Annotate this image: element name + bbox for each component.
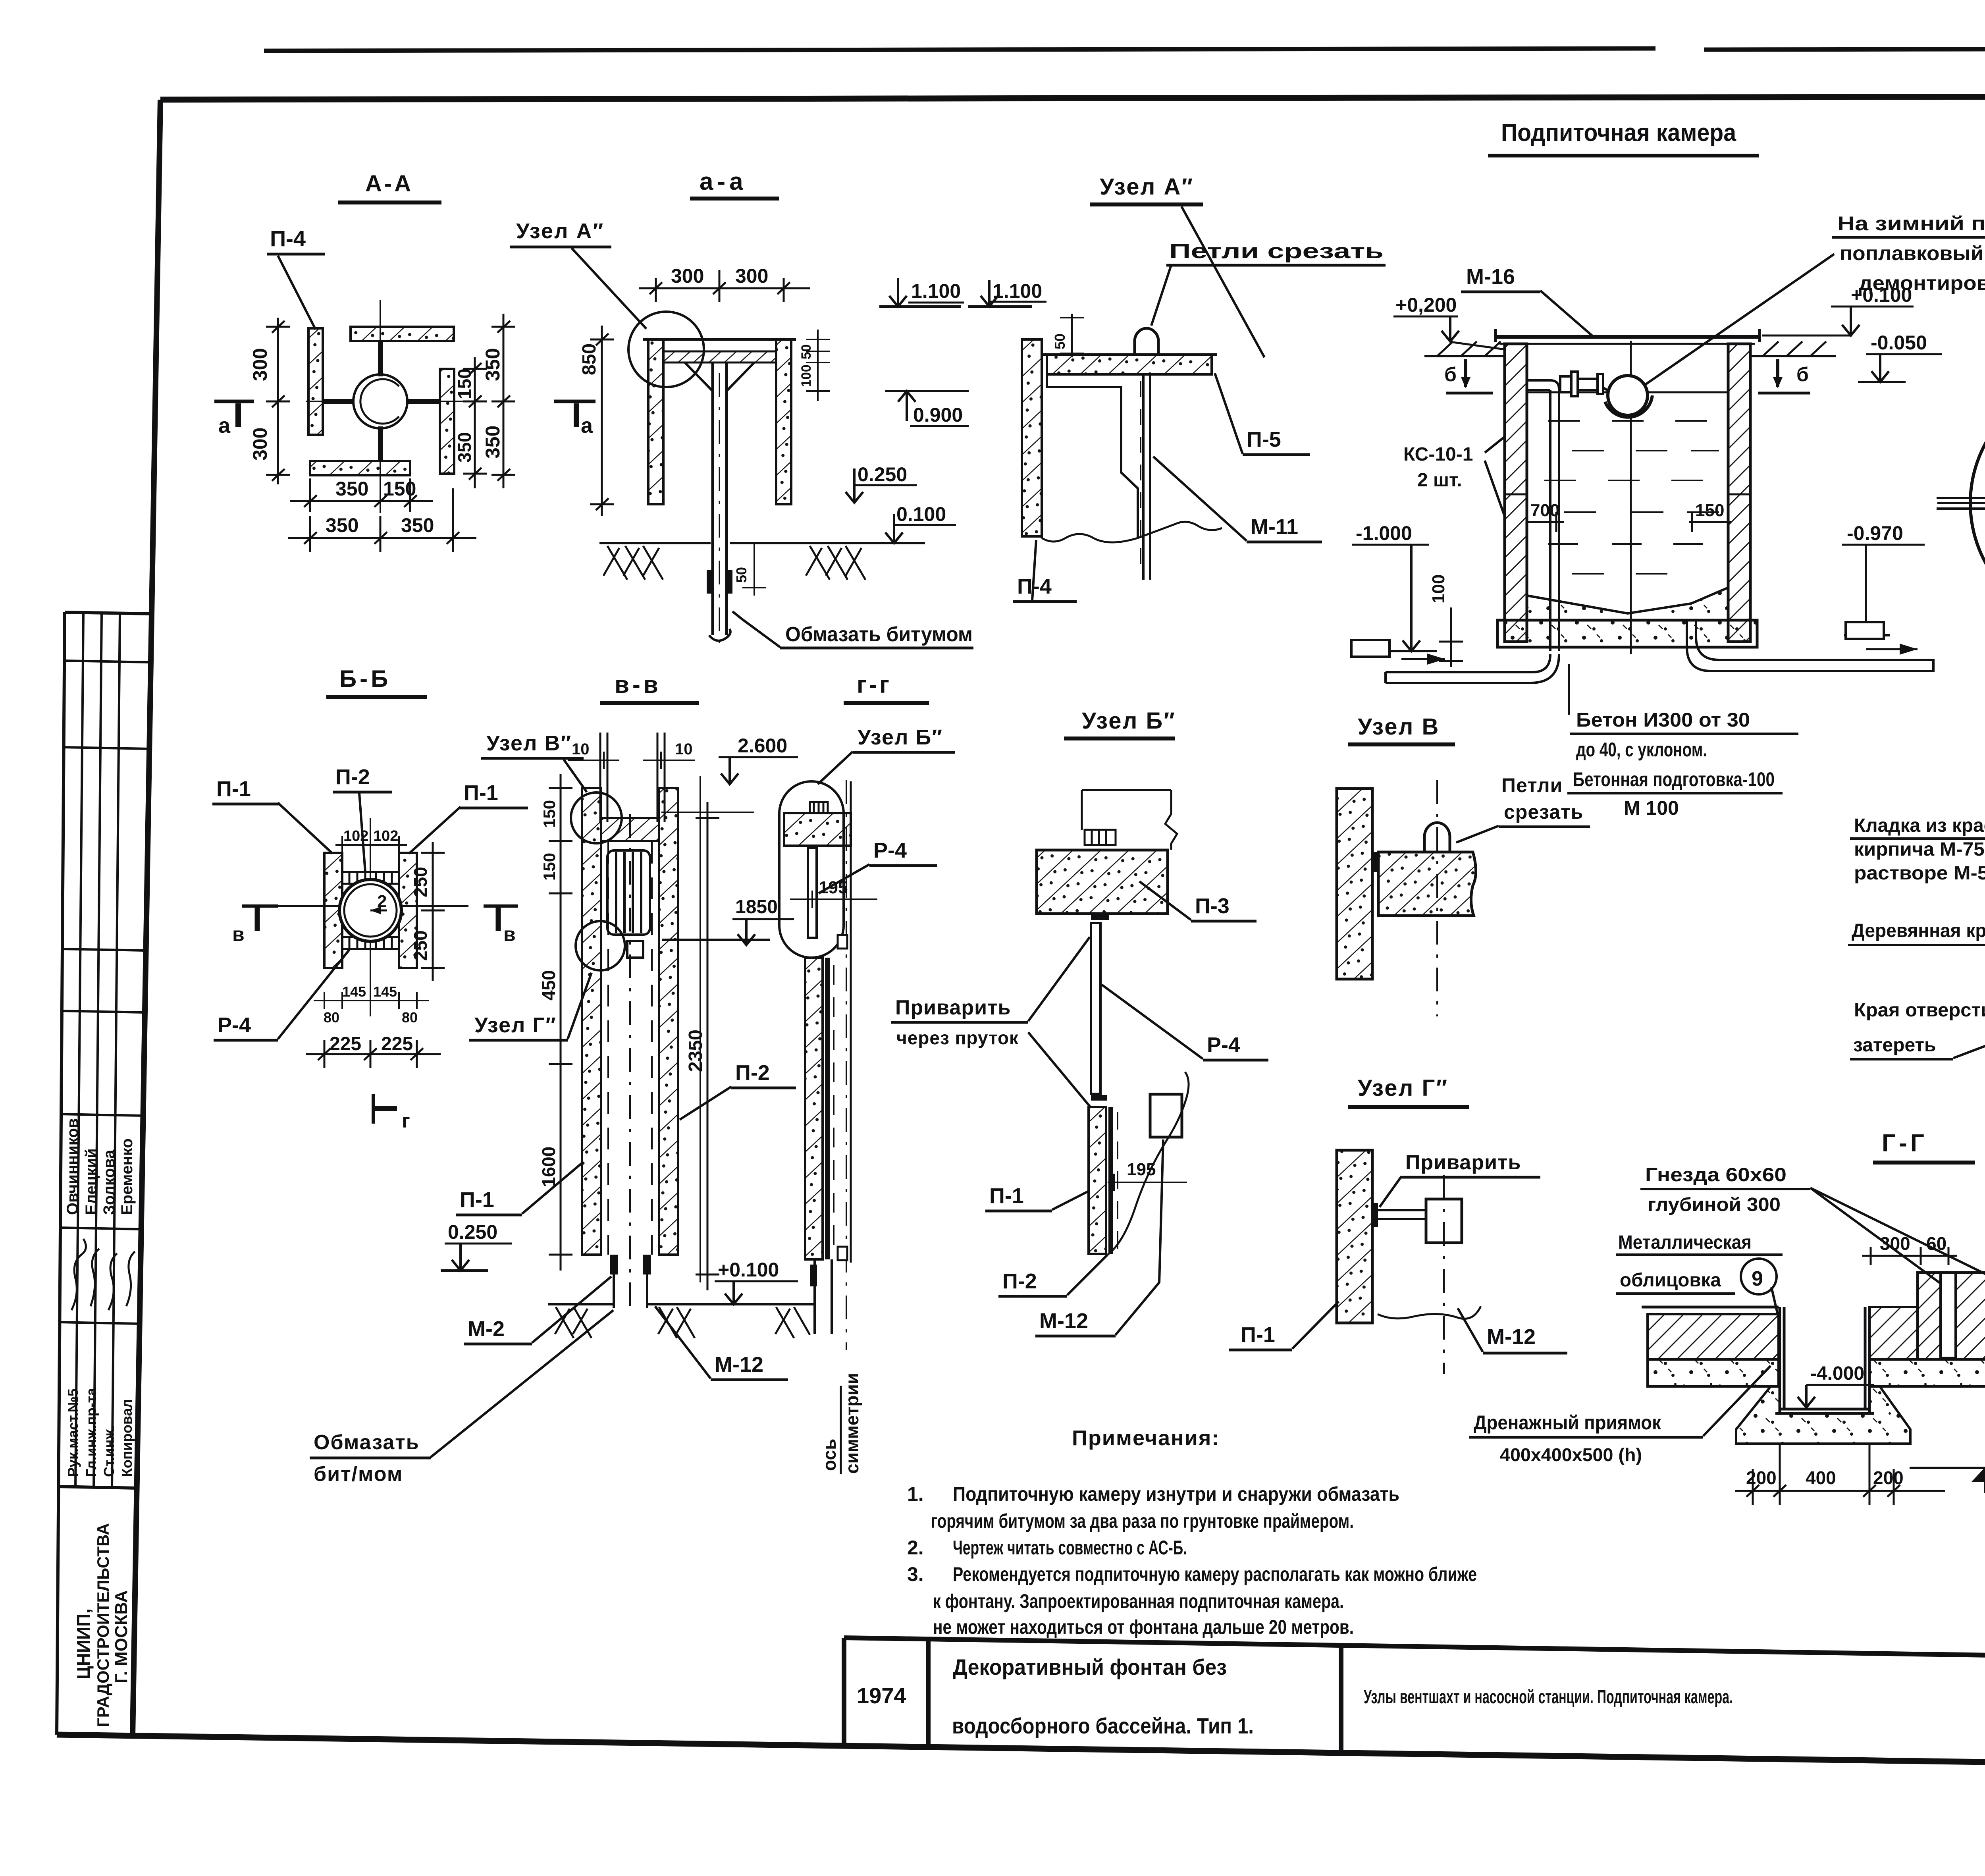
pipe collar left [707, 570, 713, 594]
flow arrow right pipe [1866, 648, 1918, 650]
lower panel speckled [805, 958, 823, 1259]
svg-text:П-1: П-1 [216, 777, 251, 801]
svg-text:102: 102 [343, 828, 368, 844]
title block top edge [844, 1638, 1985, 1662]
slab top line extended [1042, 353, 1217, 356]
outer sheet top edge line left segment [264, 48, 1655, 51]
stamp column line a [75, 613, 83, 1487]
wall vertical [1337, 789, 1372, 979]
svg-text:1600: 1600 [538, 1147, 559, 1187]
slot left [1941, 1273, 1956, 1358]
svg-text:Рекомендуется подпиточную ка: Рекомендуется подпиточную камеру распола… [953, 1563, 1477, 1585]
svg-text:а: а [581, 414, 593, 438]
svg-text:1.100: 1.100 [992, 280, 1042, 302]
svg-text:Овчинников: Овчинников [64, 1118, 81, 1215]
elevation 2.600 [661, 812, 754, 813]
svg-text:в-в: в-в [615, 671, 661, 698]
leader from title to detail [1181, 206, 1264, 357]
svg-text:Декоративный фонтан без: Декоративный фонтан без [953, 1654, 1227, 1679]
ground hatch left [603, 546, 663, 580]
horizontal centerline [1937, 502, 1985, 504]
stamp signature 1 [71, 1239, 86, 1310]
loop петля [1135, 328, 1158, 355]
svg-text:поплавковый клапан: поплавковый клапан [1840, 242, 1985, 264]
svg-text:50: 50 [733, 567, 750, 583]
dim chain bottom first [290, 478, 433, 512]
svg-text:250: 250 [410, 867, 431, 897]
weld tick [1372, 852, 1378, 872]
wall plate right [440, 369, 454, 474]
svg-text:Узел А″: Узел А″ [1100, 174, 1194, 200]
pipe collar right [727, 570, 732, 594]
water level line [1527, 391, 1728, 393]
svg-text:Петли срезать: Петли срезать [1169, 240, 1384, 263]
title block divider after year [926, 1639, 931, 1747]
plate dashes [1140, 381, 1141, 572]
wall right [776, 339, 791, 504]
svg-text:2350: 2350 [685, 1030, 706, 1072]
dim 225 225 [306, 1040, 441, 1068]
svg-text:глубиной 300: глубиной 300 [1648, 1194, 1781, 1215]
center pipe dashdot [629, 814, 631, 1310]
detail stadium узел Б [779, 781, 844, 958]
svg-text:Рук.маст.№5: Рук.маст.№5 [65, 1388, 81, 1477]
stamp row line 3 [62, 949, 146, 951]
stamp signature 2 [91, 1249, 99, 1306]
lower dash [1117, 1112, 1118, 1251]
section marker в right [496, 906, 501, 931]
svg-text:г: г [402, 1110, 410, 1132]
cross arm top [378, 341, 383, 376]
circled 9 [1741, 1259, 1777, 1294]
top anchor [810, 802, 828, 813]
svg-text:в: в [503, 923, 516, 945]
leader from circle to pit [1771, 1287, 1779, 1318]
leader to upper weld [1028, 937, 1090, 1021]
raised block [1918, 1273, 1985, 1359]
anchor plate bottom [342, 937, 399, 949]
detail bubble circle [628, 312, 704, 387]
ground line left of tank [1424, 355, 1505, 357]
tank wall right [1728, 344, 1750, 642]
dim chain right inner [463, 357, 487, 488]
svg-text:Г. МОСКВА: Г. МОСКВА [112, 1590, 131, 1683]
pipe circle [339, 879, 401, 941]
slab top line left [1642, 1306, 1779, 1309]
svg-text:Елецкий: Елецкий [83, 1148, 100, 1215]
ground line left [599, 542, 711, 544]
inner dashed form lines right [651, 842, 653, 1255]
centerline dashdot [846, 780, 847, 1350]
svg-text:до 40, с уклоном.: до 40, с уклоном. [1576, 738, 1707, 761]
svg-text:в: в [232, 923, 245, 945]
break line under block [1378, 1306, 1481, 1319]
svg-text:П-2: П-2 [735, 1061, 770, 1085]
svg-text:150: 150 [540, 853, 559, 881]
svg-text:Гл.инж.пр-та: Гл.инж.пр-та [83, 1388, 99, 1477]
svg-text:225: 225 [330, 1033, 361, 1055]
small collar bottom [838, 1247, 847, 1260]
svg-text:ЦНИИП,: ЦНИИП, [73, 1608, 94, 1679]
svg-text:Р-4: Р-4 [873, 839, 907, 862]
svg-text:б: б [1796, 363, 1809, 386]
leader to lower weld [1028, 1032, 1091, 1108]
stamp table top edge [65, 612, 152, 614]
section marker а left [214, 400, 254, 403]
svg-text:ось: ось [819, 1439, 840, 1471]
svg-text:П-1: П-1 [460, 1188, 494, 1212]
stamp row line 1 [64, 661, 151, 662]
funnel right [727, 362, 754, 391]
svg-text:Чертеж читать совместно с: Чертеж читать совместно с АС-Б. [953, 1537, 1187, 1559]
wall face vertical with break [1165, 790, 1177, 850]
small dims 50 50 100 right of lid [806, 330, 830, 401]
plate Р-4 vertical [1091, 923, 1100, 1094]
svg-text:Узел Б″: Узел Б″ [1082, 708, 1176, 734]
plate under loop [1143, 374, 1150, 580]
ground line left [548, 1303, 614, 1305]
svg-text:Бетонная подготовка-100: Бетонная подготовка-100 [1573, 768, 1775, 791]
svg-text:0.100: 0.100 [896, 503, 946, 525]
inlet rod [1937, 498, 1985, 509]
svg-text:Узел В: Узел В [1358, 714, 1440, 740]
stamp row line 4 [61, 1011, 145, 1012]
stamp column line b [94, 613, 102, 1487]
top line over walls [643, 338, 796, 341]
svg-text:102: 102 [373, 828, 398, 844]
svg-text:Подпиточную камеру изнутри: Подпиточную камеру изнутри и снаружи обм… [953, 1483, 1399, 1505]
svg-text:М-12: М-12 [1487, 1325, 1536, 1349]
dim chain bottom second [288, 488, 476, 552]
svg-text:Узел В″: Узел В″ [486, 731, 572, 755]
svg-text:Узел Г″: Узел Г″ [1358, 1075, 1448, 1101]
svg-text:Примечания:: Примечания: [1072, 1426, 1220, 1450]
section marker г bottom [373, 1106, 397, 1111]
svg-text:-0.050: -0.050 [1871, 332, 1927, 354]
leader П-4 [278, 256, 316, 330]
float valve pipe from wall [1527, 380, 1559, 651]
pipe circle inner [360, 379, 399, 424]
water dashes [1544, 421, 1719, 574]
leader петли [1151, 265, 1171, 326]
section marker в left [255, 906, 260, 931]
tank centerline [1630, 341, 1632, 654]
svg-text:300: 300 [249, 348, 271, 381]
leader from бетон text to slab [1568, 664, 1570, 715]
svg-text:симметрии: симметрии [842, 1373, 862, 1474]
svg-text:Петли: Петли [1501, 774, 1563, 796]
svg-text:300: 300 [249, 428, 271, 461]
title block divider year box left [842, 1638, 846, 1745]
stamp signature 3 [108, 1253, 117, 1310]
svg-text:Ст.инж.: Ст.инж. [101, 1425, 117, 1477]
detail bubble узел В [571, 792, 622, 843]
svg-text:КС-10-1: КС-10-1 [1403, 444, 1473, 465]
svg-text:0.250: 0.250 [858, 463, 907, 486]
svg-text:150: 150 [1695, 501, 1724, 520]
leader to slot [1810, 1188, 1947, 1288]
svg-text:700: 700 [1530, 501, 1559, 520]
svg-text:Р-4: Р-4 [1207, 1033, 1240, 1057]
funnel left [685, 362, 713, 391]
svg-text:срезать: срезать [1504, 801, 1583, 823]
dim 200 400 200 [1735, 1445, 1945, 1505]
svg-text:1850: 1850 [735, 897, 778, 918]
svg-text:Приварить: Приварить [1405, 1151, 1521, 1174]
svg-text:Узел Б″: Узел Б″ [858, 725, 943, 749]
ground line right of tank [1750, 355, 1836, 357]
svg-text:горячим битумом за два раз: горячим битумом за два раза по грунтовке… [931, 1510, 1354, 1532]
svg-text:400: 400 [1806, 1467, 1836, 1488]
svg-text:М-12: М-12 [1039, 1309, 1088, 1333]
block below grate [627, 941, 643, 958]
svg-text:225: 225 [381, 1033, 413, 1055]
drawing frame left border [133, 100, 160, 1735]
svg-text:ГРАДОСТРОИТЕЛЬСТВА: ГРАДОСТРОИТЕЛЬСТВА [94, 1523, 112, 1727]
svg-text:Обмазать битумом: Обмазать битумом [785, 623, 973, 646]
centerline dashdot [1436, 780, 1438, 1016]
slab inner fill speckles band [1527, 588, 1728, 620]
svg-text:2.600: 2.600 [738, 735, 787, 757]
outer circle [1970, 378, 1985, 628]
svg-text:облицовка: облицовка [1620, 1270, 1721, 1291]
svg-text:350: 350 [482, 348, 504, 381]
lower panel dash [833, 965, 834, 1255]
step below slab [1047, 374, 1138, 538]
slab [1047, 355, 1212, 374]
centerline vertical [380, 300, 381, 513]
svg-text:+0,200: +0,200 [1395, 294, 1457, 316]
svg-text:М-2: М-2 [468, 1317, 505, 1341]
right dim 2350 [696, 802, 719, 1290]
pit walls [1775, 1307, 1874, 1413]
wall ring joint left [1505, 494, 1527, 496]
wall vertical [1337, 1150, 1372, 1323]
svg-text:Узел А″: Узел А″ [516, 219, 604, 243]
loop on slab [1424, 823, 1450, 852]
plate Р-4 [808, 848, 817, 938]
svg-text:Металлическая: Металлическая [1618, 1232, 1752, 1253]
weld bar under slab [1091, 914, 1109, 920]
svg-text:200: 200 [1873, 1467, 1904, 1488]
detail bubble узел Г [576, 921, 625, 970]
top slab [784, 813, 851, 846]
left small box [1351, 640, 1389, 657]
svg-text:450: 450 [538, 970, 559, 1001]
svg-text:100: 100 [799, 364, 814, 387]
wall right tall [659, 788, 678, 1255]
svg-text:350: 350 [401, 514, 434, 536]
wall right [399, 853, 417, 968]
svg-text:2 шт.: 2 шт. [1417, 470, 1462, 491]
svg-text:-1.000: -1.000 [1356, 522, 1412, 544]
svg-text:Еременко: Еременко [118, 1138, 136, 1215]
centerline dashdot [1443, 1175, 1445, 1374]
dim 250 250 inner right [421, 842, 445, 981]
dim 50 [1060, 314, 1084, 357]
svg-text:М 100: М 100 [1624, 797, 1679, 819]
svg-text:к фонтану. Запроектированная: к фонтану. Запроектированная подпиточная… [933, 1590, 1344, 1612]
right small box [1846, 622, 1884, 639]
tank inner bottom slope [1527, 588, 1728, 613]
anchor plate top [342, 872, 399, 884]
svg-text:3.: 3. [907, 1563, 924, 1585]
section marker а right [554, 400, 595, 403]
left drain pipe elbow [1386, 654, 1559, 683]
stamp table left edge [57, 612, 65, 1735]
svg-text:10: 10 [675, 740, 693, 758]
svg-text:300: 300 [671, 265, 704, 287]
svg-text:Кладка из красного: Кладка из красного [1854, 815, 1985, 836]
centerline vertical [370, 818, 371, 1016]
svg-text:затереть: затереть [1853, 1035, 1936, 1056]
svg-text:Б-Б: Б-Б [339, 665, 391, 692]
svg-text:Узел Г″: Узел Г″ [474, 1013, 557, 1037]
elevation 1.100 [968, 280, 1032, 307]
svg-text:250: 250 [410, 930, 431, 961]
svg-text:300: 300 [735, 265, 768, 287]
svg-text:1.100: 1.100 [911, 280, 961, 302]
stamp row line 8 (org block top) [58, 1487, 137, 1488]
svg-text:г-г: г-г [857, 671, 892, 698]
ground line right [647, 1303, 727, 1305]
pipe bottom break [709, 629, 730, 641]
svg-text:150: 150 [540, 800, 559, 828]
stamp signature 4 [126, 1251, 135, 1306]
svg-text:0.250: 0.250 [448, 1221, 497, 1243]
anchor above slab [1085, 830, 1116, 845]
stamp row line 6 (signatures top) [60, 1228, 141, 1229]
svg-text:80: 80 [324, 1009, 339, 1026]
tank lid [1495, 335, 1760, 339]
wall face vertical [850, 781, 852, 1263]
plate to block [1374, 1210, 1429, 1219]
centerline horizontal [306, 401, 468, 402]
svg-text:П-2: П-2 [1002, 1269, 1037, 1293]
svg-text:Деревянная крышка: Деревянная крышка [1852, 920, 1985, 941]
svg-text:На зимний период: На зимний период [1837, 212, 1985, 235]
collars at wall bottom [610, 1255, 618, 1274]
wall left [648, 339, 663, 504]
white block [1426, 1199, 1462, 1243]
slab right [1378, 852, 1476, 916]
wall plate top [351, 327, 454, 341]
svg-text:350: 350 [326, 514, 358, 536]
svg-text:М-16: М-16 [1466, 265, 1515, 289]
svg-text:100: 100 [1429, 575, 1448, 603]
stamp row line 7 (labels top) [59, 1322, 140, 1324]
svg-text:1974: 1974 [857, 1683, 906, 1708]
svg-text:-4.000: -4.000 [1810, 1363, 1864, 1384]
svg-text:П-4: П-4 [270, 226, 306, 251]
svg-text:П-3: П-3 [1195, 894, 1230, 918]
svg-text:350: 350 [482, 426, 504, 459]
dim 80 145 145 80 [314, 992, 429, 1009]
svg-text:а-а: а-а [700, 168, 747, 195]
svg-text:145: 145 [373, 983, 397, 1000]
svg-text:Обмазать: Обмазать [314, 1431, 420, 1454]
right slab top small band [1869, 1307, 1918, 1359]
svg-text:145: 145 [342, 983, 366, 1000]
drawing frame top border [160, 96, 1985, 100]
cross arm bottom [378, 426, 383, 461]
lower assembly speckled strip [1089, 1107, 1106, 1254]
svg-text:б: б [1444, 363, 1457, 386]
svg-text:Бетон И300 от 30: Бетон И300 от 30 [1576, 709, 1750, 731]
elevation 1.100 [879, 278, 961, 307]
svg-text:Гнезда 60х60: Гнезда 60х60 [1645, 1165, 1786, 1186]
svg-text:Подпиточная камера: Подпиточная камера [1501, 119, 1736, 147]
weld tick [1372, 1203, 1378, 1227]
title block divider after object name [1339, 1645, 1343, 1753]
svg-text:50: 50 [1052, 334, 1068, 349]
svg-text:195: 195 [819, 878, 848, 897]
svg-text:кирпича М-75 на: кирпича М-75 на [1854, 839, 1985, 860]
svg-text:а: а [218, 414, 231, 438]
svg-text:П-1: П-1 [464, 781, 498, 805]
svg-text:Приварить: Приварить [895, 996, 1011, 1019]
pipe stubs above walls [600, 733, 665, 822]
pipe below [815, 1259, 832, 1334]
elevation 0.250 [846, 469, 863, 503]
pipe vertical [713, 362, 727, 643]
sheet title Подпиточная камера [1488, 119, 1759, 156]
pipe circle outer [353, 374, 407, 428]
svg-text:растворе М-50: растворе М-50 [1854, 863, 1985, 884]
break line diagonal [1108, 1072, 1189, 1255]
svg-text:150: 150 [454, 368, 475, 399]
svg-text:2.: 2. [907, 1537, 924, 1559]
ground line left [772, 1303, 815, 1305]
stamp column line c [112, 613, 120, 1487]
lid slab top [601, 818, 659, 841]
stamp row line 5 [60, 1114, 143, 1116]
svg-text:200: 200 [1746, 1467, 1777, 1488]
leader to float [1642, 254, 1834, 387]
svg-text:водосборного бассейна. Тип 1.: водосборного бассейна. Тип 1. [952, 1713, 1254, 1738]
svg-text:+0.100: +0.100 [718, 1259, 779, 1281]
svg-text:10: 10 [572, 740, 590, 758]
wall ring joint right [1728, 494, 1750, 496]
tank bottom slab [1497, 620, 1757, 647]
lower plate [1108, 1107, 1113, 1254]
svg-text:П-1: П-1 [989, 1184, 1024, 1208]
svg-text:0.900: 0.900 [913, 404, 963, 426]
svg-text:195: 195 [1127, 1160, 1156, 1179]
svg-text:бит/мом: бит/мом [314, 1463, 403, 1486]
lid slab [663, 351, 776, 362]
svg-text:Дренажный приямок: Дренажный приямок [1474, 1411, 1661, 1434]
wall left [1022, 339, 1042, 536]
ground line right [730, 542, 873, 544]
svg-text:М-11: М-11 [1251, 515, 1298, 539]
svg-text:50: 50 [799, 344, 814, 359]
weld bar mid [1091, 1095, 1107, 1101]
grate Р-4 [607, 850, 650, 935]
lower panel plate [825, 958, 830, 1259]
svg-text:-0.970: -0.970 [1847, 522, 1903, 544]
elevation 0.100 [865, 514, 925, 543]
svg-text:через пруток: через пруток [896, 1028, 1019, 1048]
stamp row line 2 [63, 747, 149, 749]
svg-text:Золкова: Золкова [100, 1149, 118, 1215]
dim 300 300 top [639, 270, 810, 302]
left dim chain 150 150 450 1600 [549, 774, 572, 1271]
wall left [324, 853, 342, 968]
trapezoid under pit [1736, 1386, 1910, 1444]
wall plate bottom [310, 461, 410, 475]
dim 102 102 [335, 826, 407, 854]
